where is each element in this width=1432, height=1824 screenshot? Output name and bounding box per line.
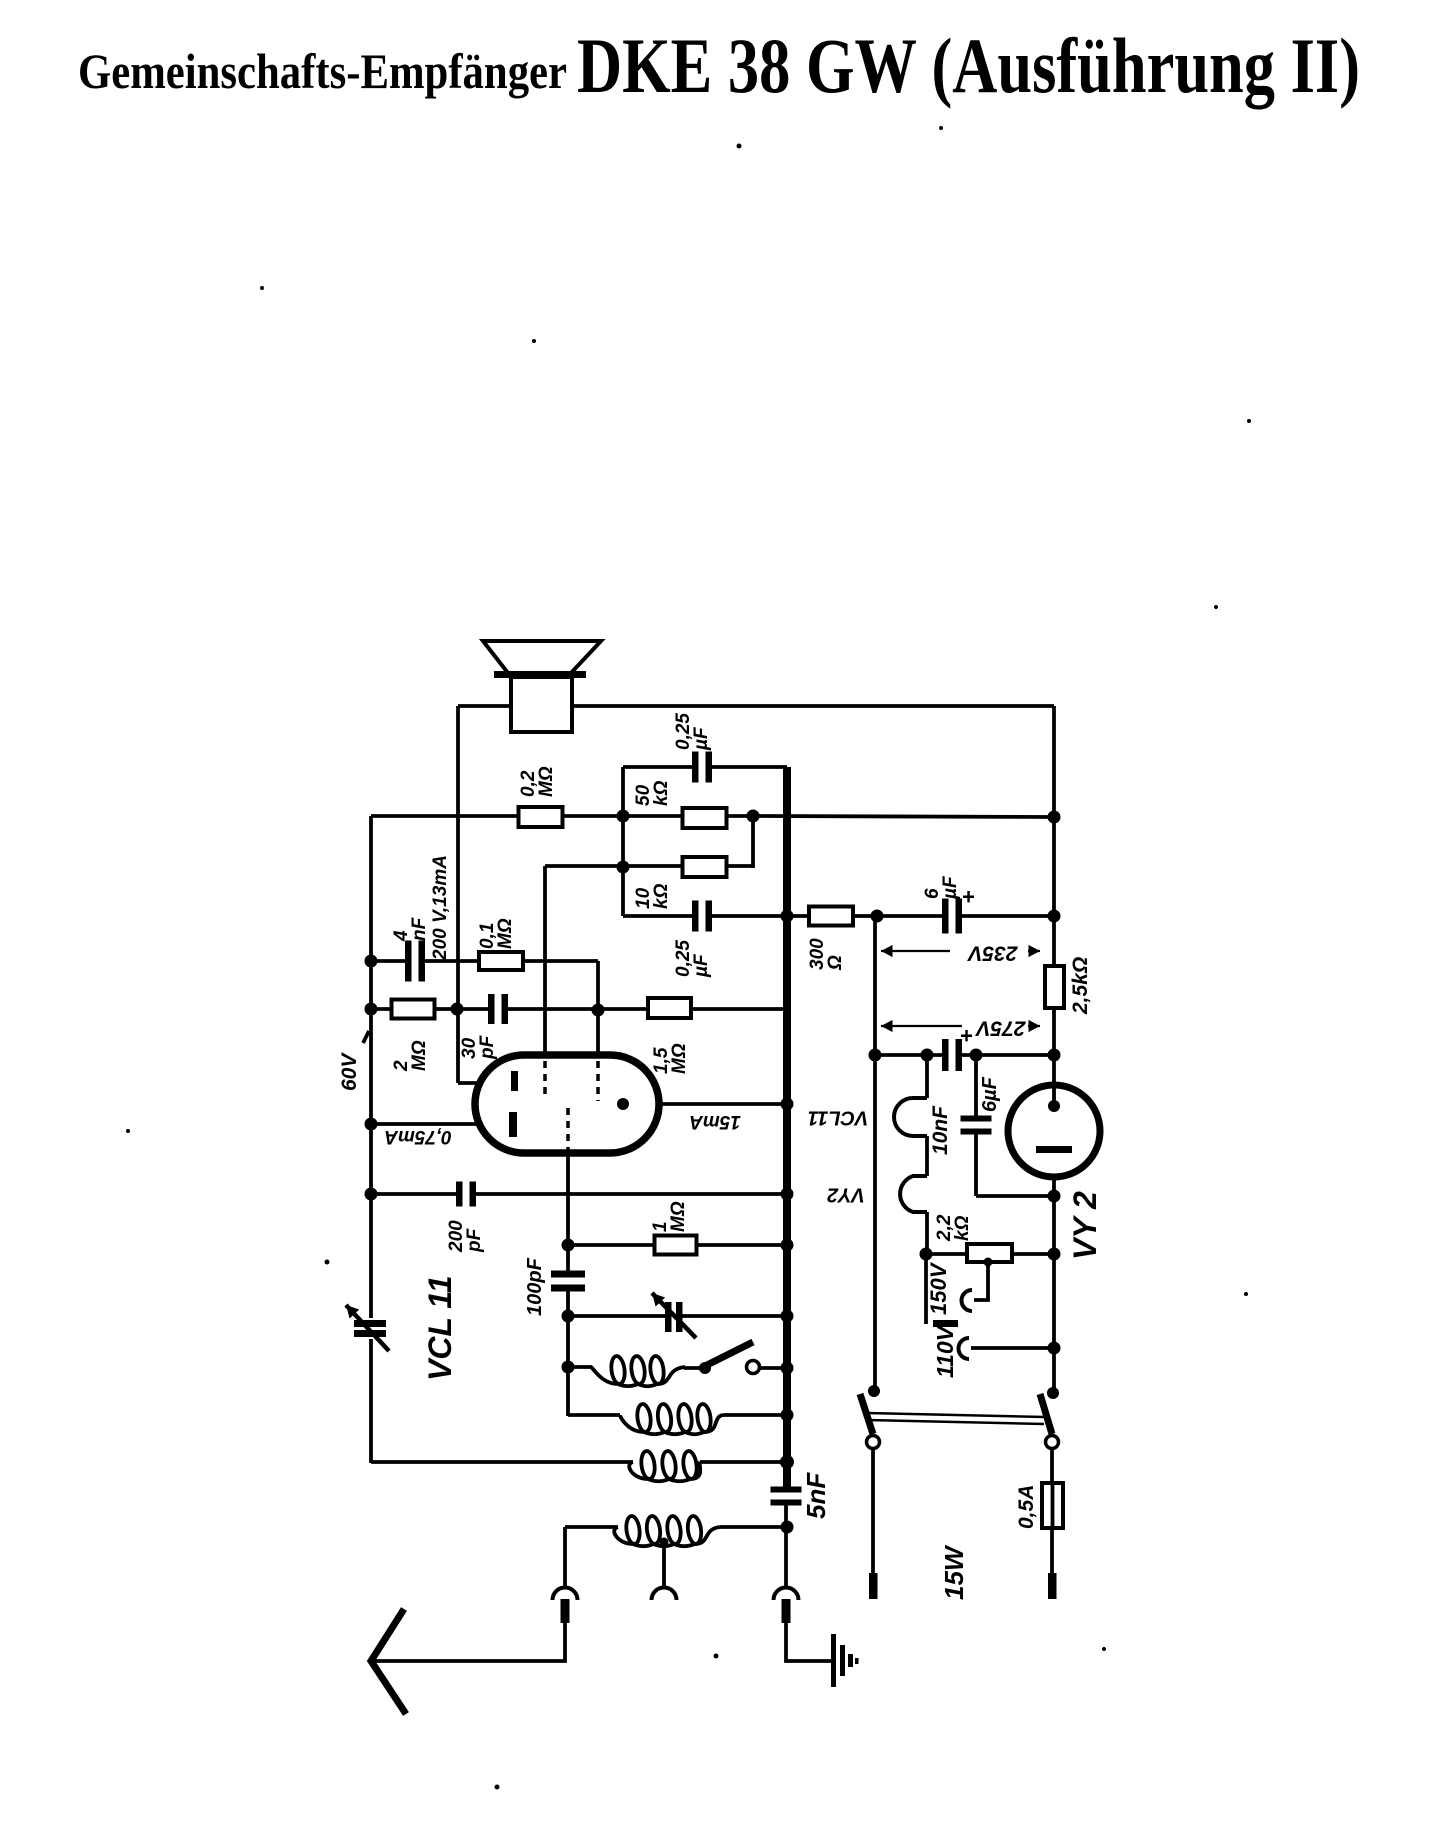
svg-text:Gemeinschafts-Empfänger: Gemeinschafts-Empfänger [78,43,567,99]
selector 150V socket arc [962,1290,972,1311]
wire cathode vertical [566,1153,570,1273]
wire left rail vertical (speaker feed) [456,706,460,1083]
label 4 nF [391,916,430,942]
capacitor 0,25 uF top [699,760,706,774]
mains plug pin right [1048,1573,1057,1599]
svg-text:VY 2: VY 2 [1067,1191,1103,1260]
svg-text:200 V,13mA: 200 V,13mA [430,855,451,961]
wire grid1 vertical to tube [543,866,547,1057]
wire heater chain bottom [925,1212,929,1254]
wire 2,2k tap down [974,1263,988,1300]
svg-text:pF: pF [464,1227,485,1253]
svg-text:DKE 38 GW (Ausführung II): DKE 38 GW (Ausführung II) [577,22,1360,109]
capacitor 6 uF first [949,909,956,923]
label 200 pF [446,1220,485,1253]
capacitor 4 nF [412,954,419,968]
svg-text:150V: 150V [926,1261,951,1315]
tube VY2 cathode bar [1036,1146,1072,1153]
voltage annotation 235V [881,950,1040,952]
svg-text:MΩ: MΩ [536,766,557,797]
svg-text:VCL 11: VCL 11 [422,1275,458,1381]
svg-text:15W: 15W [939,1544,969,1600]
mains switch coupling bar [866,1413,1044,1417]
wire antenna coil 4 line [565,1525,618,1529]
svg-text:MΩ: MΩ [495,918,516,949]
resistor 50 kOhm [683,808,727,828]
wire right rail vertical upper [1052,706,1056,1086]
label heater VCL11 [808,1107,869,1129]
svg-text:0,5A: 0,5A [1015,1485,1038,1529]
svg-text:nF: nF [409,916,430,941]
tube VY2 envelope [1008,1085,1100,1177]
wire 2M / 30pF / 1,5M line [371,1007,787,1011]
wire 1M line [568,1243,787,1247]
socket earth [774,1588,799,1601]
label 200V,13mA [430,855,451,961]
label 50 kOhm [633,780,672,806]
svg-text:MΩ: MΩ [669,1043,690,1074]
resistor 2,2 kOhm [967,1244,1012,1262]
label 15W [939,1544,969,1600]
wire bus below 5nF [784,1503,788,1587]
coil L4 tap junction [660,1538,669,1547]
label 10 kOhm [633,883,672,909]
resistor 1,5 MOhm [648,998,691,1018]
resistor 0,1 MOhm [479,952,523,970]
speaker LS [511,677,572,732]
capacitor 200 pF [463,1187,470,1201]
label 1,5 MOhm [651,1043,690,1074]
label VCL 11 tube [422,1275,458,1381]
wire 4nF / 0,1M grid2 line [371,959,598,963]
wire 0,25uF lower / 300 ohm line [623,914,1054,918]
capacitor 100 pF [561,1278,575,1285]
svg-text:µF: µF [691,726,712,751]
label 110V [932,1324,958,1378]
wire antenna coil 3 line [371,1460,633,1464]
tube VCL11 envelope [475,1055,659,1153]
tube VCL11 anode [617,1098,629,1110]
label 0,75mA [384,1126,452,1147]
resistor 1 MOhm [655,1236,697,1255]
svg-text:15mA: 15mA [689,1111,741,1132]
svg-text:µF: µF [691,953,712,978]
wire heater selector vertical [924,1254,928,1324]
wire 110V tap to rail [971,1346,1054,1350]
wire diode plate 2 lead [371,1122,512,1126]
label 300 Ohm [807,938,846,971]
label 0,2 MOhm [518,766,557,797]
mains switch left pole [868,1385,880,1397]
wire left bus vertical lower part [369,1336,373,1463]
wire anode 15mA lead [623,1102,787,1106]
wire heater chain top [925,1055,929,1098]
socket antenna [553,1588,578,1601]
resistor 0,2 MOhm [519,807,563,827]
svg-text:235V: 235V [966,941,1018,964]
wire diode plate 1 lead [458,1081,513,1085]
label 0,25 uF bottom [673,940,712,978]
capacitor 5 nF [779,1493,793,1500]
svg-text:0,75mA: 0,75mA [384,1126,452,1147]
capacitor 0,25 uF bottom [699,909,706,923]
svg-text:275V: 275V [974,1016,1026,1039]
label plus 6uF second [960,1023,973,1048]
wire tone bracket vertical [621,767,625,916]
label 0,5A [1015,1485,1038,1529]
label 6 uF first [922,875,961,900]
wire top supply rail [458,704,1054,708]
mains switch right pole [1047,1387,1059,1399]
label 150V [926,1261,951,1315]
svg-text:VY2: VY2 [827,1184,865,1206]
wire coil4 center tap [662,1541,666,1587]
label plus 6uF first [962,884,975,909]
wire grid line 0,2M/50k [371,814,753,818]
fuse 0,5 A [1042,1483,1063,1528]
svg-text:pF: pF [477,1034,498,1060]
wire 50k junction to right rail [753,816,1054,817]
svg-text:5nF: 5nF [801,1472,831,1519]
trimmer capacitor antenna [366,1318,376,1339]
capacitor 6 uF second [949,1048,956,1062]
oscillator coil L1 [591,1367,685,1386]
wire variable capacitor line [568,1314,787,1318]
wire 10k grid1 line [545,864,753,868]
resistor 2,5 kOhm vertical [1045,966,1064,1008]
label 60V [338,1052,361,1091]
wire heater feed vertical [873,916,877,1392]
label 100pF [524,1257,546,1316]
wire switch to bus [760,1366,787,1370]
wire antenna coil 2 line [568,1413,620,1417]
wire heater chain mid [925,1136,929,1176]
resistor 2 MOhm [392,1000,435,1019]
wire grid2 vertical to tube [596,961,600,1057]
variable capacitor tuning [666,1310,680,1323]
wire oscillator coil line [568,1365,592,1369]
switch wave-range [699,1362,711,1374]
label 30 pF [459,1034,498,1060]
socket middle [652,1588,677,1601]
resistor 300 Ohm [809,907,853,926]
voltage annotation 275V [881,1025,1040,1027]
label 5nF [801,1472,831,1519]
antenna symbol [371,1609,406,1714]
label 2,5kOhm [1069,957,1092,1015]
svg-text:+: + [960,1023,973,1048]
wire earth lead [786,1622,833,1661]
antenna coil L3 [629,1462,700,1481]
tube VCL11 grid 1 (dashed) [543,1061,547,1098]
label VY 2 tube [1067,1191,1103,1260]
svg-text:kΩ: kΩ [651,883,672,909]
selector pin [933,1320,958,1327]
resistor 10 kOhm [683,857,727,877]
svg-text:VCL11: VCL11 [808,1107,869,1129]
label 15mA [689,1111,741,1132]
svg-text:+: + [962,884,975,909]
capacitor 30 pF [495,1002,502,1016]
label 10nF [929,1105,952,1155]
capacitor 10 nF [969,1122,983,1129]
tube VCL11 cathode (dashed) [566,1108,570,1152]
antenna coil L4 [614,1527,720,1546]
wire right switch to fuse and plug [1050,1448,1054,1483]
mains plug pin left [869,1573,878,1599]
heater VY2 bump [900,1176,927,1212]
heater VCL11 bump [894,1098,927,1136]
wire 10nF branch vertical [974,1055,978,1120]
label 0,1 MOhm [477,918,516,949]
ground symbol [831,1634,836,1687]
junction dots [617,810,630,823]
label 0,25 uF top [673,713,712,751]
tube VCL11 diode plate 2 [509,1112,517,1137]
scan speckles [737,144,742,149]
label 1 MOhm [650,1201,689,1232]
svg-text:2,5kΩ: 2,5kΩ [1069,957,1092,1015]
wire filter line 275V node [875,1053,1054,1057]
label heater VY2 [827,1184,865,1206]
svg-text:µF: µF [940,875,961,900]
wire right rail vertical mid [1052,1177,1056,1394]
wire antenna lead [375,1622,565,1661]
svg-text:10nF: 10nF [929,1105,952,1155]
wire 2,2k line [926,1252,1054,1256]
svg-text:100pF: 100pF [524,1257,546,1316]
coupling coil L2 [620,1415,723,1434]
wire left switch to plug [871,1448,875,1574]
label 2,2 kOhm [934,1214,973,1242]
wire left bus vertical [369,816,373,1322]
label 6uF second [979,1076,1001,1112]
wire 10k right lead vertical [751,816,755,868]
label 2 MOhm [391,1040,430,1072]
tube VY2 anode lead [1052,1088,1056,1102]
main cathode bus (thick) [783,767,791,1489]
svg-text:kΩ: kΩ [651,780,672,806]
svg-text:MΩ: MΩ [409,1040,430,1071]
tube VCL11 grid 2 (dashed) [596,1061,600,1101]
svg-text:kΩ: kΩ [952,1215,973,1241]
wire coil4 left down to socket [563,1527,567,1587]
svg-text:60V: 60V [338,1052,361,1091]
wire 200pF line [371,1192,787,1196]
wire 0,25uF top branch [623,765,787,769]
tube VCL11 diode plate 1 [511,1071,518,1091]
wire 10nF bottom to rail [976,1194,1054,1198]
svg-text:MΩ: MΩ [668,1201,689,1232]
svg-text:6µF: 6µF [979,1076,1001,1112]
selector 110V socket arc [959,1338,970,1359]
svg-text:110V: 110V [932,1324,958,1378]
svg-text:Ω: Ω [825,955,846,971]
